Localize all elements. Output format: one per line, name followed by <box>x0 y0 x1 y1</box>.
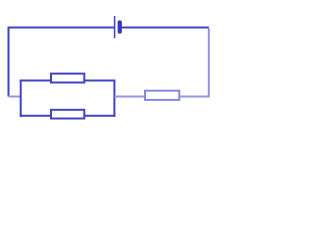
wire: top branch left stub <box>20 80 51 82</box>
wire: right vertical (light) <box>208 28 210 96</box>
wire: series resistor to right vertical (light) <box>179 96 210 98</box>
wire: parallel group right bus <box>113 80 115 117</box>
wire: bottom branch right stub <box>84 115 115 117</box>
wire: parallel group left bus <box>20 80 22 117</box>
wire: bottom branch left stub <box>20 115 51 117</box>
resistor R1 (top parallel) <box>51 74 84 83</box>
resistor R2 (bottom parallel) <box>51 110 84 119</box>
resistor R3 (series) <box>145 91 179 100</box>
battery B1 long thin plate <box>114 16 116 38</box>
wire: top branch right stub <box>84 80 115 82</box>
wire: left vertical + top-left horizontal to battery <box>9 28 115 97</box>
wire: battery to top-right corner <box>122 27 209 29</box>
wire: left connector at node A (light) <box>9 96 21 98</box>
wire: node B connector to series resistor (light) <box>114 96 145 98</box>
battery B1 short thick plate <box>118 20 122 34</box>
